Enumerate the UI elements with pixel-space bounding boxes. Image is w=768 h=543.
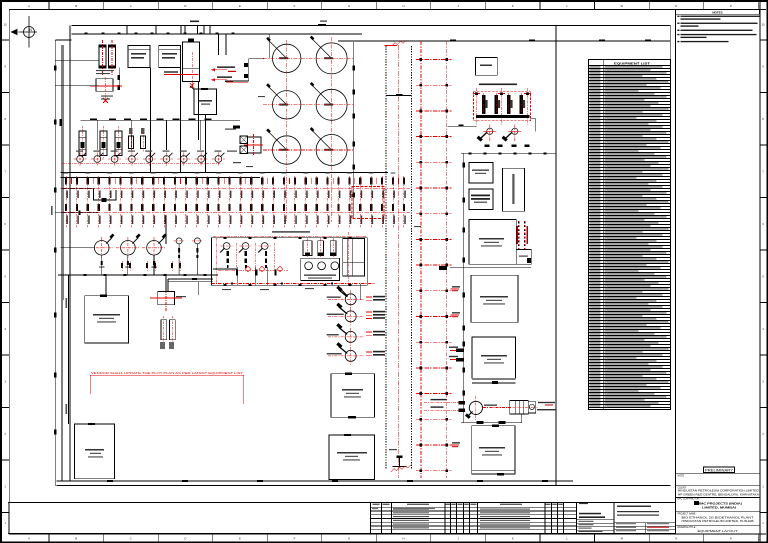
svg-text:C: C bbox=[130, 4, 132, 8]
bagasse yard box bbox=[472, 426, 515, 474]
conveyor centerline bbox=[398, 45, 400, 478]
storage tank (331.6,150) bbox=[316, 135, 347, 166]
transfer pump row bbox=[74, 151, 225, 166]
break squiggle bottom bbox=[391, 465, 411, 472]
valve row B centerline bbox=[62, 211, 410, 213]
tall bin bbox=[183, 42, 200, 82]
pump suction line bbox=[61, 247, 95, 249]
filter feed arrows bbox=[450, 349, 463, 351]
pump P4 bbox=[129, 156, 136, 163]
svg-text:NOTES: NOTES bbox=[712, 10, 722, 14]
pipe rack columns bbox=[420, 41, 422, 478]
feed vessel 2 bbox=[109, 45, 116, 68]
svg-text:HINDUSTAN PETROLEUM CORPORATIO: HINDUSTAN PETROLEUM CORPORATION LIMITED bbox=[678, 490, 759, 493]
plant top wall line A bbox=[72, 25, 671, 27]
pan supply tank bbox=[343, 239, 365, 277]
sulphur pumps bbox=[487, 128, 493, 134]
drum package 2 bbox=[159, 46, 181, 68]
svg-text:K: K bbox=[512, 4, 514, 8]
svg-text:E: E bbox=[239, 537, 241, 541]
storage tank (286.7,104.8) bbox=[273, 91, 301, 119]
sulphur burners bbox=[482, 95, 485, 114]
svg-text:BIO ETHANOL 2G BIOETHANOL PLAN: BIO ETHANOL 2G BIOETHANOL PLANT bbox=[682, 516, 755, 519]
revision table bbox=[370, 503, 372, 534]
flushing tank bbox=[75, 424, 115, 479]
storage tank (286.7,58.4) bbox=[273, 44, 301, 72]
vessel cluster header bbox=[80, 119, 240, 121]
plant top wall line C bbox=[338, 40, 670, 42]
ruler tick dividers top/bottom bbox=[48, 2, 50, 10]
svg-text:C: C bbox=[130, 537, 132, 541]
break squiggle top bbox=[392, 40, 406, 46]
day tank bbox=[190, 86, 194, 90]
labels near conveyor bottom bbox=[389, 449, 397, 450]
pump P1 bbox=[77, 156, 84, 163]
tank bay wall bbox=[353, 42, 355, 218]
filter vessels bbox=[303, 241, 312, 256]
pump discharge labels bbox=[366, 296, 372, 298]
svg-text:10: 10 bbox=[4, 23, 8, 27]
suction U-loop bbox=[94, 189, 117, 200]
feed vessel 1 bbox=[99, 45, 106, 68]
pipe rack rungs bbox=[416, 59, 452, 61]
conveyor cross tie bbox=[386, 95, 411, 97]
plant bottom wall bbox=[57, 480, 574, 482]
juice pump (316.4) bbox=[345, 311, 356, 322]
conveyor top break bbox=[385, 44, 398, 46]
svg-text:EQUIPMENT LAYOUT: EQUIPMENT LAYOUT bbox=[698, 529, 739, 533]
svg-text:P: P bbox=[730, 4, 732, 8]
dosing skid bbox=[158, 292, 175, 305]
pump P5 bbox=[146, 156, 153, 163]
svg-text:EQUIPMENT LIST: EQUIPMENT LIST bbox=[614, 61, 650, 65]
svg-text:A: A bbox=[28, 4, 30, 8]
mill motor bbox=[528, 402, 536, 413]
mixed juice tank bbox=[331, 374, 375, 418]
feeder labels right of rack bbox=[451, 288, 460, 290]
red duct bars bbox=[518, 221, 520, 249]
ruler inner frame bbox=[9, 8, 766, 10]
name/drawing-no box bbox=[576, 503, 578, 534]
juice pump (355.9) bbox=[345, 350, 356, 361]
title column divider bbox=[675, 9, 677, 535]
red service line bbox=[62, 162, 220, 164]
svg-text:G: G bbox=[348, 4, 350, 8]
south wall of pump house bbox=[58, 274, 218, 276]
pump P3 bbox=[111, 156, 118, 163]
molasses tank box bbox=[469, 220, 516, 265]
svg-text:VENDOR SHALL UPDATE THE PLOT P: VENDOR SHALL UPDATE THE PLOT PLAN AS PER… bbox=[91, 371, 243, 375]
svg-text:N: N bbox=[675, 537, 677, 541]
small valve bars above wall bbox=[121, 263, 123, 268]
top wall ticks bbox=[126, 26, 128, 35]
sulphur module title bbox=[479, 84, 517, 86]
row A feed stub bbox=[61, 188, 96, 190]
clarifier inner dividers bbox=[213, 268, 238, 270]
sulphur store box bbox=[469, 189, 493, 210]
screw feed lines bbox=[447, 401, 459, 403]
clarifier pumps bbox=[223, 243, 230, 250]
svg-text:PROJECT NAME :: PROJECT NAME : bbox=[678, 512, 698, 515]
pump stems bbox=[101, 255, 103, 275]
plant left wall bbox=[54, 40, 56, 486]
svg-text:HP GREEN R&D CENTRE, BENGALURU: HP GREEN R&D CENTRE, BENGALURU, KARNATAK… bbox=[678, 493, 760, 496]
tank feed nook bbox=[248, 59, 250, 81]
svg-text:PRELIMINARY: PRELIMINARY bbox=[705, 468, 734, 472]
notes block header bbox=[676, 10, 760, 14]
notes text lines bbox=[681, 16, 760, 17]
svg-text:EPC CONTRACTOR :: EPC CONTRACTOR : bbox=[678, 498, 701, 501]
pump P2 bbox=[94, 156, 101, 163]
red diamonds bbox=[245, 266, 283, 272]
labels under clarifier bbox=[222, 289, 231, 290]
MCC room bbox=[475, 58, 497, 76]
svg-text:N: N bbox=[675, 4, 677, 8]
bottom strip outline bbox=[8, 503, 675, 534]
pump P9 bbox=[215, 156, 222, 163]
svg-text:HINDUSTAN PETROLEUM LIMITED, P: HINDUSTAN PETROLEUM LIMITED, PUNJAB bbox=[682, 520, 755, 523]
preliminary stamp bbox=[704, 467, 735, 473]
clarifier bottom red header bbox=[211, 283, 375, 285]
svg-text:A: A bbox=[28, 537, 30, 541]
storage tank (331.6,58.4) bbox=[316, 43, 347, 74]
right area wall bbox=[463, 153, 465, 423]
column vessels bbox=[79, 131, 86, 156]
dosing pots bbox=[129, 136, 134, 149]
condensate tank bbox=[329, 435, 375, 480]
equipment list rows bbox=[589, 68, 671, 70]
svg-text:CLIENT :: CLIENT : bbox=[678, 487, 688, 490]
title block rows bbox=[676, 472, 760, 474]
mol pump box bbox=[516, 249, 531, 264]
mill pump bbox=[469, 401, 482, 414]
big pump circles bbox=[94, 241, 109, 256]
misc labels in tank bay bbox=[233, 162, 241, 163]
conveyor bottom tee bbox=[393, 466, 407, 468]
pump valve stacks bbox=[227, 251, 229, 256]
svg-text:F: F bbox=[294, 4, 296, 8]
bagasse conveyor dotted walls bbox=[385, 46, 387, 470]
small pump circles bbox=[176, 238, 182, 244]
svg-text:D: D bbox=[184, 537, 186, 541]
valve row bars bbox=[65, 178, 67, 185]
clarifier red top edge bbox=[213, 236, 367, 238]
svg-text:H: H bbox=[403, 537, 405, 541]
juice heater pair bbox=[240, 136, 248, 144]
storage tank (331.6,104.8) bbox=[316, 89, 347, 120]
ruler tick dividers left/right bbox=[2, 39, 10, 41]
svg-text:B: B bbox=[75, 4, 77, 8]
juice pump (299.3) bbox=[345, 294, 356, 305]
svg-text:K: K bbox=[512, 537, 514, 541]
boundary under sulphur bbox=[461, 152, 556, 154]
clarifier station outline bbox=[211, 238, 367, 285]
svg-text:DRAWING TITLE :: DRAWING TITLE : bbox=[678, 526, 698, 529]
sulphur module red frame bbox=[473, 92, 530, 121]
svg-text:P: P bbox=[730, 537, 732, 541]
mill drive package bbox=[510, 400, 529, 414]
pump P7 bbox=[180, 156, 187, 163]
svg-text:G: G bbox=[348, 537, 350, 541]
svg-text:H: H bbox=[403, 4, 405, 8]
svg-text:E: E bbox=[239, 4, 241, 8]
red pipe labels bbox=[211, 68, 215, 71]
mix box bbox=[96, 79, 113, 92]
juice pump (336.9) bbox=[345, 331, 356, 342]
svg-text:10: 10 bbox=[761, 23, 765, 27]
valve row red risers bbox=[71, 178, 73, 184]
transfer diagonal bbox=[340, 289, 348, 297]
plant right wall bbox=[555, 26, 557, 486]
raw water tank box bbox=[471, 275, 518, 322]
pump P8 bbox=[198, 156, 205, 163]
pump P6 bbox=[163, 156, 170, 163]
mud filter house bbox=[472, 337, 515, 378]
tank red centerlines bbox=[286, 40, 288, 222]
pump column header bbox=[360, 284, 362, 301]
equipment list table bbox=[589, 60, 671, 410]
pipe drops bbox=[218, 34, 220, 55]
svg-text:D: D bbox=[184, 4, 186, 8]
row-end red enclosure bbox=[352, 187, 384, 219]
inner wall bbox=[68, 275, 70, 424]
suction headers bbox=[61, 172, 389, 174]
module feed line bbox=[448, 125, 477, 127]
mill base line bbox=[461, 422, 522, 424]
lime prep box bbox=[469, 163, 493, 184]
chem vessels bbox=[161, 320, 167, 340]
svg-text:LIMITED, MUMBAI: LIMITED, MUMBAI bbox=[702, 506, 736, 510]
north arrow bbox=[28, 16, 30, 48]
drum package 1 bbox=[128, 46, 150, 68]
equipment shed tall box bbox=[502, 168, 524, 211]
aeration tank bbox=[85, 296, 129, 343]
row B feed line bbox=[55, 212, 98, 214]
wall stub lines bbox=[55, 59, 98, 61]
svg-text:F: F bbox=[294, 537, 296, 541]
storage tank (286.7,150) bbox=[273, 136, 301, 164]
wall vertical labels bbox=[66, 298, 68, 308]
burner base bbox=[476, 115, 530, 118]
svg-text:B: B bbox=[75, 537, 77, 541]
svg-text:NOTE :: NOTE : bbox=[678, 475, 686, 478]
evaporator box with circles bbox=[301, 258, 340, 280]
valve row A centerline bbox=[62, 187, 410, 189]
pump house step outline bbox=[168, 278, 213, 280]
dimension label top wall bbox=[190, 21, 199, 23]
plant top wall line B bbox=[72, 33, 363, 35]
clarifier red header bbox=[218, 269, 288, 271]
